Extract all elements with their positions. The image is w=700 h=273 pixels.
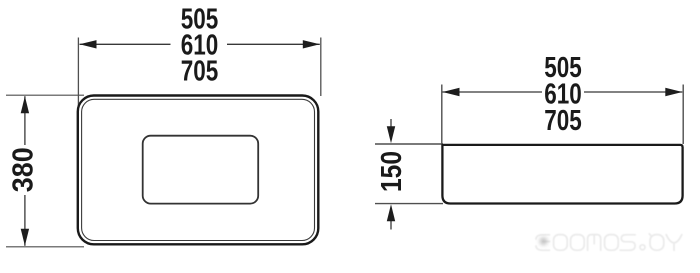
svg-text:380: 380 [8, 147, 40, 192]
svg-text:705: 705 [544, 105, 582, 137]
left view: height dimension line [24, 96, 26, 246]
right view: width dimension line [443, 91, 683, 93]
left view: extension line left vertical [77, 38, 79, 108]
watermark: zoomos.by logo outline text [536, 234, 682, 251]
svg-text:150: 150 [376, 151, 408, 192]
left view: extension line right vertical [320, 38, 322, 97]
right view: width label 705 [544, 105, 582, 137]
right view: height arrow bottom (pointing up) [387, 204, 395, 229]
left view: dimension arrow right [303, 40, 320, 48]
right view: dimension arrow right [665, 88, 682, 96]
right view: dimension arrow left [443, 88, 460, 96]
right view: extension line bottom horizontal [375, 203, 443, 205]
left view: width label 505 [181, 4, 219, 36]
right view: extension line left vertical [441, 85, 443, 145]
svg-text:705: 705 [181, 56, 219, 88]
right view: height label 150 (rotated) [376, 151, 408, 192]
left view: dimension arrow left [80, 40, 97, 48]
watermark: gray logo blob [540, 237, 548, 245]
right view: width label 610 [544, 78, 582, 110]
left view: extension line bottom horizontal [6, 246, 84, 248]
left view: height label 380 (rotated) [8, 147, 40, 192]
right view: extension line right vertical [682, 85, 684, 145]
left view: height arrow down [21, 229, 29, 246]
left view: width label 610 [181, 30, 219, 62]
left view: basin outer body (double border rounded rect) [78, 96, 318, 245]
left view: width dimension line [80, 43, 320, 45]
left view: extension line top horizontal [6, 94, 84, 96]
left view: inner basin bowl [143, 136, 259, 204]
right view: width label 505 [544, 52, 582, 84]
right view: basin side profile body [442, 145, 682, 204]
left view: width label 705 [181, 56, 219, 88]
left view: height arrow up [21, 96, 29, 113]
right view: extension line top horizontal [375, 143, 443, 145]
right view: height arrow top (pointing down) [387, 119, 395, 143]
